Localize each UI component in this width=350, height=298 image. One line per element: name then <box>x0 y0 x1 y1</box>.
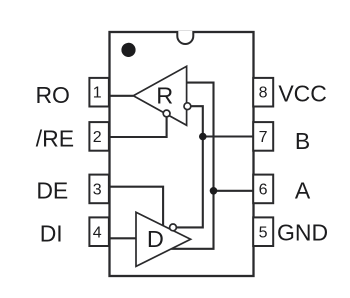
svg-text:DE: DE <box>36 178 68 204</box>
svg-text:4: 4 <box>93 224 102 241</box>
svg-text:6: 6 <box>259 181 268 198</box>
svg-text:/RE: /RE <box>36 125 74 151</box>
svg-text:R: R <box>156 83 173 109</box>
svg-text:B: B <box>295 128 310 154</box>
svg-text:GND: GND <box>277 220 328 246</box>
svg-text:D: D <box>147 226 164 252</box>
svg-text:VCC: VCC <box>278 80 327 106</box>
svg-text:DI: DI <box>40 220 63 246</box>
svg-text:8: 8 <box>259 85 268 102</box>
svg-text:2: 2 <box>93 129 102 146</box>
svg-text:7: 7 <box>259 129 268 146</box>
svg-text:RO: RO <box>35 82 70 108</box>
svg-text:5: 5 <box>259 224 268 241</box>
svg-text:A: A <box>295 177 311 203</box>
svg-text:1: 1 <box>93 85 102 102</box>
svg-text:3: 3 <box>93 181 102 198</box>
